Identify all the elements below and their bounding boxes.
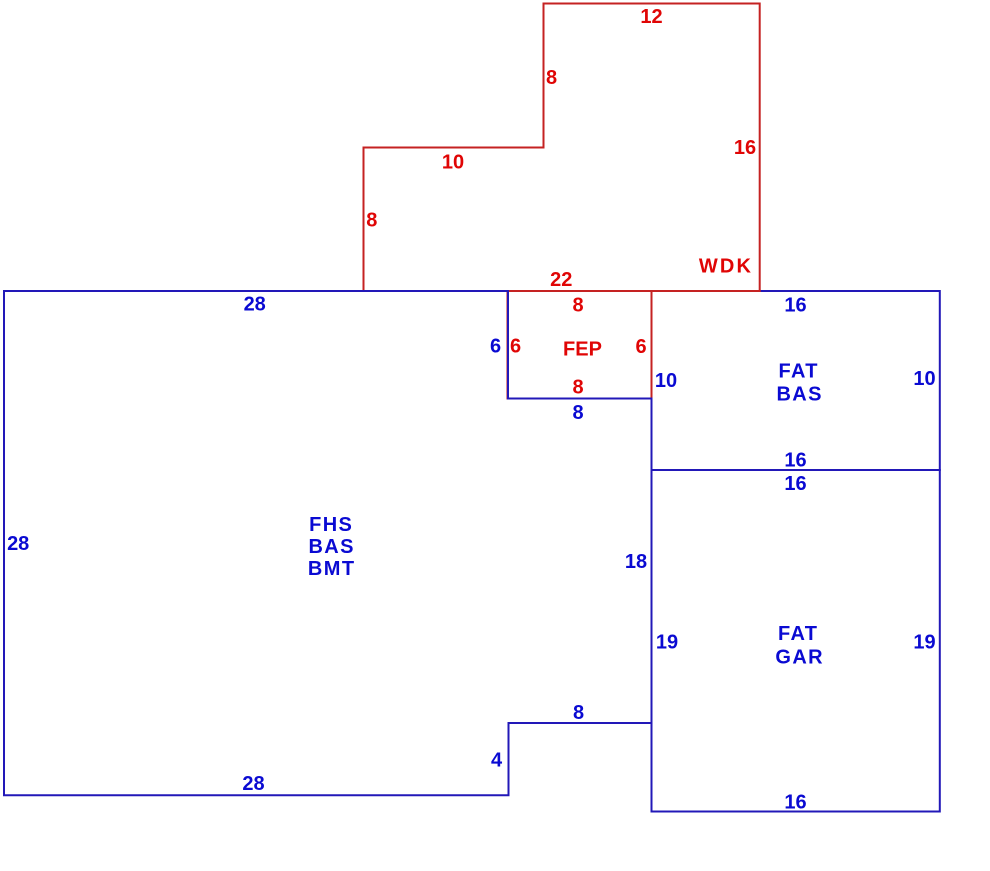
label FAT GAR	[775, 623, 824, 668]
label FHS BAS BMT	[308, 514, 356, 580]
svg-text:16: 16	[784, 791, 806, 813]
svg-text:FAT: FAT	[778, 360, 819, 382]
svg-text:28: 28	[244, 294, 266, 316]
dimension 8 (WDK upper-left vertical)	[546, 67, 557, 89]
FAT/BAS area outline	[652, 291, 940, 470]
svg-text:16: 16	[784, 449, 806, 471]
dimension 16 (FAT/GAR top)	[784, 473, 806, 495]
dimension 8 (house notch horizontal)	[573, 702, 584, 724]
dimension 19 (FAT/GAR right)	[913, 631, 935, 653]
svg-text:8: 8	[572, 402, 583, 424]
svg-text:8: 8	[546, 67, 557, 89]
svg-text:12: 12	[640, 6, 662, 28]
svg-text:8: 8	[572, 294, 583, 316]
svg-text:16: 16	[784, 295, 806, 317]
dimension 18 (house right middle)	[625, 551, 647, 573]
svg-text:10: 10	[655, 370, 677, 392]
svg-text:8: 8	[366, 209, 377, 231]
svg-text:28: 28	[7, 533, 29, 555]
svg-text:22: 22	[550, 269, 572, 291]
svg-text:FEP: FEP	[563, 339, 602, 361]
svg-text:16: 16	[734, 137, 756, 159]
dimension 10 (FAT/BAS right)	[913, 368, 935, 390]
dimension 10 (FAT/BAS left)	[655, 370, 677, 392]
dimension 12 (WDK top)	[640, 6, 662, 28]
dimension 22 (WDK bottom)	[550, 269, 572, 291]
svg-text:FAT: FAT	[778, 623, 819, 645]
dimension 8 (FEP top)	[572, 294, 583, 316]
dimension 4 (house notch vertical)	[491, 749, 503, 771]
FAT/GAR area outline	[652, 470, 940, 812]
FEP porch outline	[508, 291, 652, 399]
dimension 8 (WDK left)	[366, 209, 377, 231]
svg-text:6: 6	[635, 336, 646, 358]
dimension 10 (WDK step horizontal)	[442, 151, 464, 173]
svg-text:6: 6	[510, 335, 521, 357]
dimension 6 blue (house notch left of FEP)	[490, 335, 501, 357]
dimension 16 (FAT/BAS top)	[784, 295, 806, 317]
dimension 28 (house left)	[7, 533, 29, 555]
dimension 8 blue (house notch bottom of FEP)	[572, 402, 583, 424]
FHS/BAS/BMT house outline	[4, 291, 652, 795]
svg-text:10: 10	[913, 368, 935, 390]
svg-text:4: 4	[491, 749, 503, 771]
svg-text:16: 16	[784, 473, 806, 495]
svg-text:18: 18	[625, 551, 647, 573]
dimension 19 (FAT/GAR left)	[656, 631, 678, 653]
svg-text:8: 8	[572, 376, 583, 398]
svg-text:BAS: BAS	[776, 383, 822, 405]
svg-text:GAR: GAR	[775, 647, 824, 669]
dimension 28 (house bottom)	[242, 773, 264, 795]
label FEP	[563, 339, 602, 361]
svg-text:BAS: BAS	[308, 536, 354, 558]
svg-text:6: 6	[490, 335, 501, 357]
dimension 16 (WDK right)	[734, 137, 756, 159]
dimension 28 (house top)	[244, 294, 266, 316]
svg-text:WDK: WDK	[699, 255, 753, 277]
dimension 8 red (FEP bottom)	[572, 376, 583, 398]
dimension 16 (FAT/GAR bottom)	[784, 791, 806, 813]
label FAT BAS	[776, 360, 822, 405]
svg-text:BMT: BMT	[308, 558, 356, 580]
WDK deck outline	[364, 4, 760, 292]
svg-text:19: 19	[656, 631, 678, 653]
label WDK	[699, 255, 753, 277]
svg-text:8: 8	[573, 702, 584, 724]
dimension 16 (FAT/BAS bottom)	[784, 449, 806, 471]
svg-text:10: 10	[442, 151, 464, 173]
dimension 6 red (FEP left)	[510, 335, 521, 357]
svg-text:19: 19	[913, 631, 935, 653]
svg-text:FHS: FHS	[309, 514, 353, 536]
svg-text:28: 28	[242, 773, 264, 795]
dimension 6 red (FEP right)	[635, 336, 646, 358]
